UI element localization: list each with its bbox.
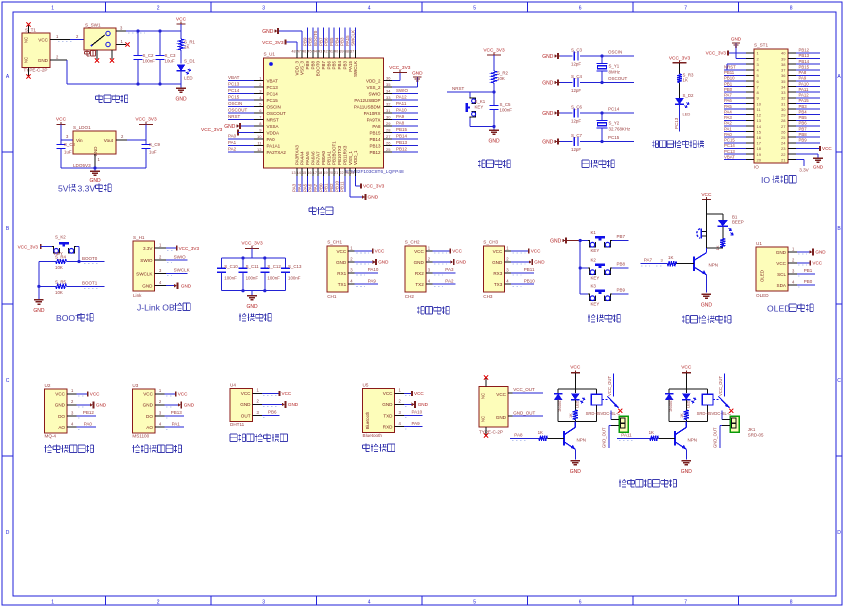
svg-text:GND: GND: [496, 415, 507, 420]
svg-text:GND: GND: [142, 284, 153, 289]
svg-text:PA9: PA9: [396, 114, 405, 119]
svg-text:S_C5: S_C5: [500, 102, 512, 107]
svg-text:36: 36: [781, 73, 786, 78]
caption filter circuit lv-bo-dian-lu: [239, 313, 271, 321]
svg-text:GND: GND: [246, 304, 258, 310]
svg-text:PC14: PC14: [267, 91, 279, 96]
svg-text:13: 13: [757, 118, 762, 123]
transistor NPN relay PA11: [675, 421, 697, 459]
svg-text:BOOT0: BOOT0: [316, 61, 321, 77]
wire PB10 net: [511, 278, 536, 286]
svg-text:RXD: RXD: [383, 424, 393, 429]
caption key circuit an-jian-dian-lu: [588, 314, 620, 322]
svg-text:PB11RX3: PB11RX3: [342, 145, 347, 165]
svg-text:GND: GND: [368, 195, 379, 201]
svg-text:TX1: TX1: [338, 282, 347, 287]
svg-text:S_Y2: S_Y2: [609, 121, 620, 126]
svg-text:PB12: PB12: [396, 147, 408, 152]
svg-text:12pF: 12pF: [571, 88, 581, 93]
svg-text:NPN: NPN: [688, 438, 698, 443]
svg-text:D: D: [837, 530, 841, 536]
connector S_CH2 serial: [405, 240, 433, 300]
module U3 MS1100 formaldehyde: [132, 383, 164, 439]
svg-text:GND: GND: [184, 403, 195, 408]
svg-text:S_C2: S_C2: [143, 53, 155, 58]
svg-text:GND: GND: [681, 469, 693, 475]
wire PA2 net: [432, 278, 455, 286]
svg-text:2: 2: [428, 256, 431, 261]
svg-text:3: 3: [159, 268, 162, 273]
svg-text:17: 17: [757, 141, 762, 146]
power port VCC relay cell PA11: [681, 365, 692, 390]
ground port crystal row S_C7: [542, 138, 571, 145]
svg-text:3: 3: [792, 268, 795, 273]
header left pins stubs and numbers: [746, 51, 762, 163]
svg-text:GND: GND: [456, 260, 467, 265]
svg-text:PA5: PA5: [724, 104, 732, 109]
svg-text:PA12USBDP: PA12USBDP: [354, 98, 380, 103]
power port VCC_3V3 boot: [18, 244, 52, 249]
svg-text:VCC: VCC: [822, 146, 832, 151]
wire PB8 net: [612, 262, 629, 268]
svg-text:1: 1: [350, 245, 353, 250]
power port VCC alarm: [701, 192, 712, 214]
svg-text:37: 37: [350, 50, 354, 54]
ground at mcu VSS_2: [392, 71, 423, 88]
svg-text:18: 18: [757, 146, 762, 151]
connector S_CH1 serial: [327, 240, 355, 300]
svg-text:35: 35: [386, 82, 391, 87]
svg-text:PB12: PB12: [369, 150, 381, 155]
svg-text:PB13: PB13: [396, 140, 408, 145]
svg-text:3.3V: 3.3V: [799, 168, 809, 173]
svg-text:Link: Link: [133, 293, 142, 298]
svg-text:TXD: TXD: [383, 413, 393, 418]
svg-text:1: 1: [428, 245, 431, 250]
svg-text:GND: GND: [414, 260, 425, 265]
svg-text:PA6: PA6: [724, 98, 732, 103]
svg-text:VCC: VCC: [143, 392, 153, 397]
connector labels JK1 SRD-05: [748, 427, 764, 438]
svg-text:PA11: PA11: [799, 87, 809, 92]
svg-text:PC13: PC13: [674, 117, 679, 129]
header right pins stubs and numbers: [781, 51, 796, 163]
svg-text:3: 3: [66, 134, 69, 139]
svg-text:CH3: CH3: [483, 294, 493, 299]
svg-text:PC14: PC14: [228, 88, 240, 93]
svg-text:VCC_3V3: VCC_3V3: [241, 241, 263, 247]
svg-text:32.768KHz: 32.768KHz: [609, 127, 631, 132]
svg-text:VCC_3V3: VCC_3V3: [262, 40, 284, 46]
pin 1 S_T1 VCC: [50, 34, 79, 42]
svg-text:PB4: PB4: [799, 109, 808, 114]
svg-text:1uF: 1uF: [149, 150, 157, 155]
svg-text:PB12: PB12: [799, 48, 810, 53]
svg-text:2: 2: [350, 256, 353, 261]
svg-text:LED: LED: [687, 400, 691, 408]
svg-text:1: 1: [159, 388, 162, 393]
svg-text:1: 1: [792, 246, 795, 251]
svg-text:6: 6: [579, 599, 582, 605]
svg-text:DO: DO: [146, 414, 153, 419]
svg-text:PB9: PB9: [305, 61, 310, 70]
resistor S_R5 10K: [39, 280, 105, 295]
svg-text:PB10TX3: PB10TX3: [337, 145, 342, 165]
svg-text:26: 26: [781, 129, 786, 134]
svg-text:D: D: [6, 530, 10, 536]
svg-text:10: 10: [757, 101, 762, 106]
capacitor S_C3 10uF: [156, 31, 177, 84]
svg-text:VDDA: VDDA: [267, 130, 280, 135]
svg-text:OSCIN: OSCIN: [228, 101, 242, 106]
svg-text:GND: GND: [534, 260, 545, 265]
svg-text:S_LDO1: S_LDO1: [73, 125, 91, 130]
svg-text:VCC: VCC: [56, 117, 67, 123]
crystal S_Y2 32.768KHz: [597, 111, 631, 143]
svg-text:PB6: PB6: [324, 37, 329, 46]
svg-text:VDD_2: VDD_2: [366, 78, 381, 83]
svg-text:2: 2: [56, 55, 59, 60]
svg-text:Bluetooth: Bluetooth: [365, 411, 370, 429]
svg-text:VSS_3: VSS_3: [300, 61, 305, 76]
svg-text:VDD_3: VDD_3: [294, 61, 299, 76]
svg-text:PB13: PB13: [799, 53, 810, 58]
svg-text:LDO5V3: LDO5V3: [73, 163, 91, 168]
svg-text:PA12: PA12: [396, 95, 407, 100]
svg-text:SWCLK: SWCLK: [136, 271, 153, 276]
svg-text:OLED: OLED: [767, 304, 790, 314]
svg-text:2: 2: [159, 255, 162, 260]
transistor Q NPN alarm: [694, 248, 718, 293]
caption program running indicator: [652, 140, 704, 147]
svg-text:PA11: PA11: [621, 432, 632, 437]
svg-text:PC13: PC13: [724, 149, 735, 154]
svg-text:PA15: PA15: [345, 35, 350, 46]
svg-text:4: 4: [368, 6, 371, 12]
svg-text:VBAT: VBAT: [724, 154, 735, 159]
svg-text:3: 3: [350, 267, 353, 272]
wire PB12 net u2: [77, 410, 97, 418]
svg-text:PA7: PA7: [644, 258, 653, 263]
svg-text:PB7: PB7: [617, 234, 626, 239]
svg-text:NC: NC: [481, 416, 486, 422]
svg-text:SWIO: SWIO: [174, 254, 186, 259]
svg-text:PC13: PC13: [267, 85, 279, 90]
svg-text:AO: AO: [58, 425, 65, 430]
svg-text:2: 2: [259, 82, 262, 87]
svg-text:LED: LED: [576, 400, 580, 408]
svg-text:3: 3: [399, 410, 402, 415]
svg-text:VCC: VCC: [570, 365, 581, 371]
svg-text:OLED: OLED: [756, 293, 769, 298]
svg-text:PB8: PB8: [308, 37, 313, 46]
module U2 MQ-4 methane: [45, 383, 77, 439]
svg-text:7: 7: [259, 115, 262, 120]
svg-text:U1: U1: [756, 241, 762, 246]
svg-text:NRST: NRST: [228, 114, 241, 119]
svg-text:PA5A5: PA5A5: [305, 151, 310, 165]
svg-text:PC15: PC15: [724, 138, 735, 143]
svg-text:4: 4: [368, 599, 371, 605]
svg-text:4: 4: [506, 279, 509, 284]
connector S_T1 TYPE-C-2P: [22, 26, 50, 76]
svg-text:GND: GND: [96, 403, 107, 408]
svg-text:PA5: PA5: [302, 183, 307, 192]
svg-text:VSSA: VSSA: [267, 124, 279, 129]
ground port jlink pin4: [166, 283, 192, 289]
svg-text:GND: GND: [382, 402, 393, 407]
svg-text:19: 19: [757, 152, 762, 157]
svg-text:GND: GND: [815, 250, 826, 255]
pin 3 switch out: [116, 26, 145, 34]
svg-text:PA3RXA3: PA3RXA3: [294, 145, 299, 165]
connector S_CH3 serial: [483, 240, 511, 300]
svg-text:GND_OUT: GND_OUT: [602, 427, 607, 448]
svg-text:15: 15: [302, 171, 306, 175]
svg-text:47: 47: [297, 50, 301, 54]
wire SWCLK net: [166, 268, 190, 276]
svg-text:PB8: PB8: [310, 61, 315, 70]
svg-text:S_T1: S_T1: [25, 28, 36, 33]
svg-text:16: 16: [757, 135, 762, 140]
wire GND_OUT drop PA8: [602, 426, 611, 449]
wire net label OSCOUT: [608, 76, 628, 81]
switch caption kai-guan: [85, 50, 96, 56]
regulator S_LDO1 LDO5V3: [73, 125, 116, 168]
wire SWIO net: [166, 254, 188, 262]
ground port oled pin1: [797, 248, 826, 255]
wire alarm top node: [706, 213, 722, 215]
svg-text:33: 33: [386, 95, 391, 100]
svg-text:32: 32: [386, 102, 391, 107]
power port VCC: [176, 17, 187, 32]
wire 3.3V header pin21: [796, 160, 810, 173]
svg-text:10K: 10K: [55, 290, 63, 295]
button K3 KEY: [580, 283, 612, 306]
svg-text:VCC: VCC: [812, 261, 822, 266]
svg-text:PB1: PB1: [804, 268, 813, 273]
svg-text:LED: LED: [683, 112, 691, 117]
connector S_H1 jlink: [133, 235, 166, 298]
svg-text:2: 2: [792, 257, 795, 262]
svg-text:7: 7: [684, 599, 687, 605]
wire relay contact to connector PA11: [721, 411, 723, 420]
svg-text:PA15: PA15: [348, 61, 353, 72]
svg-text:VSS_2: VSS_2: [366, 85, 381, 90]
svg-text:VDD_1: VDD_1: [353, 150, 358, 165]
svg-text:PA11USBDM: PA11USBDM: [354, 104, 381, 109]
svg-text:SCL: SCL: [777, 272, 786, 277]
wire S_T1 pin1 to switch: [70, 39, 84, 41]
svg-text:PB10: PB10: [524, 278, 536, 283]
svg-text:PB1: PB1: [724, 81, 733, 86]
ground symbol boot: [33, 300, 45, 314]
svg-text:32: 32: [781, 96, 786, 101]
svg-text:MS1100: MS1100: [132, 434, 149, 439]
switch bottom pins with x marks: [95, 50, 114, 63]
caption IO expansion port: [761, 175, 796, 185]
svg-text:VCC: VCC: [776, 261, 786, 266]
ground port at mcu VSSA: [224, 123, 254, 130]
wire filter top rail: [222, 256, 286, 259]
svg-text:8: 8: [790, 6, 793, 12]
svg-text:4: 4: [159, 421, 162, 426]
svg-text:S_C10: S_C10: [224, 264, 238, 269]
svg-text:NRST: NRST: [452, 86, 465, 91]
svg-text:S_D1: S_D1: [184, 59, 196, 64]
svg-text:GND: GND: [240, 402, 251, 407]
junction dots power rails: [136, 29, 161, 85]
svg-text:GND: GND: [288, 402, 299, 407]
svg-text:GND: GND: [412, 71, 423, 77]
button K1 KEY: [580, 230, 612, 253]
power port VCC ldo: [56, 117, 67, 141]
svg-text:PB3: PB3: [799, 104, 808, 109]
svg-text:PA8: PA8: [396, 121, 405, 126]
mcu left pin names and numbers: [254, 76, 286, 155]
LED S_D1: [177, 59, 196, 85]
svg-text:PC15: PC15: [608, 135, 620, 140]
svg-text:PB15: PB15: [799, 64, 810, 69]
svg-text:S_C7: S_C7: [571, 133, 583, 138]
wire alarm bottom node: [706, 247, 722, 249]
svg-text:PB2: PB2: [329, 183, 334, 192]
svg-text:CH2: CH2: [405, 294, 415, 299]
svg-text:PA1A1: PA1A1: [267, 143, 281, 148]
svg-text:100nF: 100nF: [143, 59, 156, 64]
svg-text:1: 1: [56, 34, 59, 39]
pin 2 S_T1 GND: [50, 55, 67, 61]
svg-text:PB1A1: PB1A1: [326, 150, 331, 165]
wires mcu right net labels: [392, 88, 418, 152]
svg-text:40: 40: [781, 51, 786, 56]
svg-text:PB7: PB7: [318, 37, 323, 46]
svg-text:PA0: PA0: [724, 132, 732, 137]
svg-text:KEY: KEY: [475, 105, 484, 110]
relay switch blade PA11: [713, 374, 729, 409]
svg-text:PA4: PA4: [724, 109, 732, 114]
svg-text:PA8: PA8: [514, 432, 523, 437]
svg-text:CH1: CH1: [327, 294, 337, 299]
svg-text:PA3: PA3: [445, 267, 454, 272]
svg-text:S_H1: S_H1: [133, 235, 145, 240]
svg-text:VCC: VCC: [90, 392, 100, 397]
svg-text:GND: GND: [570, 469, 582, 475]
svg-text:PA6A6: PA6A6: [310, 151, 315, 165]
caption power circuit dian-yuan-dian-lu: [96, 95, 128, 103]
svg-text:31: 31: [386, 108, 391, 113]
svg-text:12pF: 12pF: [571, 119, 581, 124]
svg-text:S_C9: S_C9: [149, 142, 161, 147]
svg-text:TYPE-C-2P: TYPE-C-2P: [479, 430, 503, 435]
no-connect x on S_T1 bottom pin: [26, 74, 30, 78]
wire PA1 net u3: [164, 421, 184, 429]
power port VCC_3V3 reset: [483, 48, 505, 72]
wire boot left trunk: [37, 262, 40, 300]
wires mcu bottom net labels: [292, 176, 345, 192]
svg-text:1: 1: [259, 76, 262, 81]
ground port u4: [262, 401, 299, 408]
svg-text:100nF: 100nF: [288, 276, 301, 281]
svg-text:SWCLK: SWCLK: [174, 268, 190, 273]
svg-text:PA10: PA10: [799, 81, 810, 86]
svg-text:3: 3: [262, 599, 265, 605]
svg-text:GND: GND: [776, 250, 787, 255]
svg-text:2: 2: [159, 399, 162, 404]
svg-text:BOOT0: BOOT0: [82, 256, 98, 261]
ground port keys: [550, 237, 580, 244]
power port VCC S_CH3: [511, 249, 541, 254]
svg-text:23: 23: [345, 171, 349, 175]
svg-text:2: 2: [121, 134, 124, 139]
svg-text:PB12: PB12: [83, 410, 95, 415]
svg-text:SRD-05VDC-SL-C: SRD-05VDC-SL-C: [586, 411, 621, 416]
wires header left net labels: [724, 64, 746, 159]
svg-text:3: 3: [159, 410, 162, 415]
svg-text:PB11: PB11: [724, 70, 735, 75]
svg-text:PA9: PA9: [412, 421, 421, 426]
wire PA0 net u2: [77, 421, 97, 429]
svg-text:OSCOUT: OSCOUT: [228, 108, 248, 113]
capacitor S_C10 100nF: [217, 258, 238, 291]
svg-text:38: 38: [781, 62, 786, 67]
capacitor S_C6 12pF: [560, 105, 634, 124]
svg-text:S_CH2: S_CH2: [405, 240, 420, 245]
svg-text:OSCIN: OSCIN: [608, 50, 622, 55]
svg-text:25: 25: [386, 147, 391, 152]
power port VCC oled pin2: [797, 261, 823, 266]
svg-text:GND: GND: [701, 303, 713, 309]
svg-text:PA1: PA1: [724, 126, 732, 131]
svg-text:GND: GND: [418, 402, 429, 407]
caption alarm circuit sheng-guang-bao-jing: [682, 315, 731, 323]
svg-text:SWIO: SWIO: [140, 258, 153, 263]
ground symbol relay PA8: [570, 461, 582, 476]
svg-text:S_C4: S_C4: [571, 74, 583, 79]
power port VCC_3V3 jlink pin1: [166, 246, 199, 251]
svg-text:S_R2: S_R2: [497, 71, 509, 76]
LED S_D2: [675, 93, 694, 117]
svg-text:8MHz: 8MHz: [609, 70, 620, 75]
power port VCC_3V3 at mcu VDD_2: [389, 65, 411, 81]
mcu bottom pin names and numbers: [291, 141, 358, 176]
svg-text:SWCLK: SWCLK: [353, 61, 358, 77]
svg-text:TX2: TX2: [415, 282, 424, 287]
svg-text:3: 3: [262, 6, 265, 12]
svg-text:1uF: 1uF: [64, 150, 72, 155]
svg-text:16: 16: [307, 171, 311, 175]
ground port u5: [404, 401, 429, 408]
resistor 1K base alarm: [651, 255, 694, 267]
power port VCC header pin23: [796, 146, 832, 151]
svg-text:1: 1: [71, 388, 74, 393]
svg-text:KEY: KEY: [591, 301, 600, 306]
ground symbol filter: [246, 291, 258, 310]
svg-text:17: 17: [313, 171, 317, 175]
svg-text:PB6: PB6: [799, 121, 808, 126]
svg-text:3: 3: [428, 267, 431, 272]
svg-text:PA2: PA2: [445, 278, 454, 283]
svg-text:PB7: PB7: [799, 126, 808, 131]
svg-text:SWIO: SWIO: [396, 88, 408, 93]
svg-text:PB3: PB3: [340, 37, 345, 46]
svg-text:PB5: PB5: [329, 37, 334, 46]
svg-text:PB8: PB8: [799, 132, 808, 137]
caption J-Link OB interface: [137, 303, 190, 313]
svg-text:J-Link OB: J-Link OB: [137, 303, 175, 313]
svg-text:PA2: PA2: [724, 121, 732, 126]
flyback diode 1N4007 PA11: [665, 389, 674, 421]
